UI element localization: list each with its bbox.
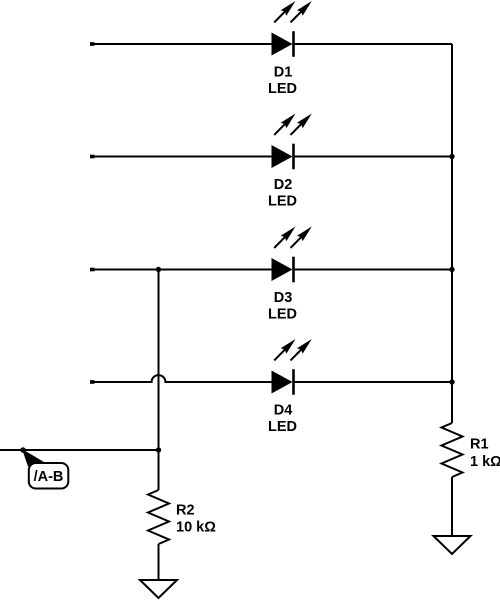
wire D2 anode (90, 156, 272, 158)
wire R2 to ground (158, 544, 160, 580)
svg-text:/A-B: /A-B (34, 469, 64, 485)
svg-text:1 kΩ: 1 kΩ (470, 454, 500, 470)
svg-text:R1: R1 (470, 437, 489, 453)
LED D1 (272, 1, 312, 57)
svg-text:D1: D1 (274, 64, 293, 80)
resistor R2 (148, 490, 169, 544)
ground GND1 (434, 536, 471, 554)
wire net A-B horizontal (0, 449, 159, 451)
net flag /A-B pointer (22, 449, 49, 467)
wire D1 cathode (294, 43, 453, 45)
junction bus-D2 (449, 154, 454, 159)
svg-text:R2: R2 (176, 503, 195, 519)
resistor R1 (442, 423, 463, 477)
net flag /A-B box (29, 463, 69, 489)
svg-text:D4: D4 (274, 402, 293, 418)
LED D4 (272, 339, 312, 395)
svg-text:LED: LED (268, 419, 297, 435)
svg-text:LED: LED (268, 81, 297, 97)
wire D2 cathode (294, 156, 453, 158)
wire right bus (451, 44, 453, 423)
svg-text:10 kΩ: 10 kΩ (176, 520, 216, 536)
ground GND2 (140, 580, 177, 598)
node A-B connection dot (20, 447, 25, 452)
svg-text:D2: D2 (274, 177, 293, 193)
svg-text:LED: LED (268, 307, 297, 323)
junction A-B-vertical (156, 447, 161, 452)
LED D3 (272, 227, 312, 283)
wire R1 to ground (451, 477, 453, 536)
junction D3-vertical (156, 267, 161, 272)
wire D4 anode with hop over vertical wire (90, 375, 272, 382)
wire D3 cathode (294, 269, 453, 271)
LED D2 (272, 114, 312, 170)
svg-text:LED: LED (268, 194, 297, 210)
junction bus-D4 (449, 379, 454, 384)
wire D1 anode (90, 43, 272, 45)
wire D4 cathode (294, 381, 453, 383)
junction bus-D3 (449, 267, 454, 272)
wire D3 anode (90, 269, 272, 271)
wire left vertical from D3 to R2 (158, 270, 160, 491)
svg-text:D3: D3 (274, 290, 293, 306)
